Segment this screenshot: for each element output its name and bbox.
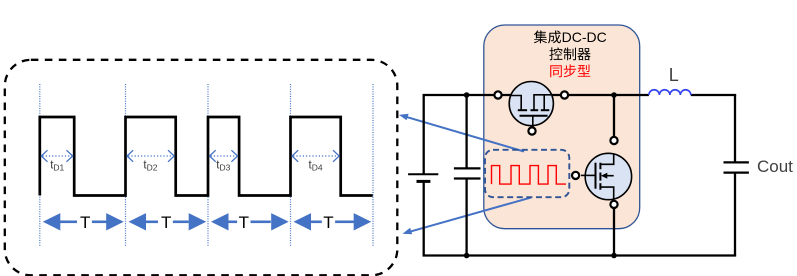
junction dot top Cin xyxy=(464,92,470,98)
svg-text:T: T xyxy=(161,213,171,232)
callout arrow upper xyxy=(399,114,524,152)
MOSFET Q2 low-side (N-channel) xyxy=(572,153,632,199)
svg-text:L: L xyxy=(669,65,679,85)
period dimension arrow T3 xyxy=(211,213,289,230)
MOSFET Q1 high-side (P-channel) xyxy=(509,82,553,135)
junction dot bottom switch-node xyxy=(611,253,617,259)
wire: top rail right of inductor xyxy=(691,94,736,96)
dashed zoom-detail box xyxy=(5,60,398,275)
period boundary line 2 xyxy=(125,84,127,247)
label 集成DC-DC (CJK as paths) xyxy=(534,30,561,43)
label 控制器 xyxy=(549,47,590,60)
junction dot bottom Cin xyxy=(464,253,470,259)
wire: battery branch xyxy=(423,95,425,256)
callout arrow lower xyxy=(403,198,532,235)
period dimension arrow T1 xyxy=(43,213,124,230)
period boundary line 4 xyxy=(290,84,292,247)
capacitor Cin xyxy=(454,168,481,178)
period dimension arrow T2 xyxy=(129,213,207,230)
svg-text:tD1: tD1 xyxy=(50,159,64,172)
period boundary line 3 xyxy=(207,84,209,247)
controller box U1 xyxy=(484,25,640,229)
svg-text:DC-DC: DC-DC xyxy=(562,29,607,45)
terminal: Q1 drain pin xyxy=(494,91,501,98)
terminal: Q1 gate pin xyxy=(528,127,535,134)
PWM signal trace (red) xyxy=(492,166,567,185)
period boundary line 1 xyxy=(39,84,41,247)
capacitor Cout xyxy=(724,162,749,172)
wire: input capacitor branch xyxy=(465,95,467,256)
label 同步型 (red) xyxy=(550,64,590,77)
PWM signal box xyxy=(485,150,569,197)
svg-text:tD2: tD2 xyxy=(143,159,157,172)
wire: bottom rail xyxy=(423,254,737,256)
dimension arrow tD4 xyxy=(292,150,339,162)
dimension arrow tD2 xyxy=(127,150,174,162)
dimension arrow tD1 xyxy=(41,150,72,162)
dimension arrow tD3 xyxy=(210,150,238,162)
svg-text:T: T xyxy=(323,213,333,232)
terminal: Q1 source pin xyxy=(561,91,568,98)
terminal: Q2 source pin xyxy=(610,201,617,208)
period dimension arrow T4 xyxy=(294,213,372,230)
terminal: Q2 drain pin xyxy=(610,137,617,144)
inductor L coil xyxy=(649,90,691,95)
period boundary line 5 xyxy=(372,84,374,247)
wire: switch node branch xyxy=(613,95,615,256)
svg-text:T: T xyxy=(239,213,249,232)
svg-text:tD3: tD3 xyxy=(216,159,230,172)
svg-text:Cout: Cout xyxy=(757,157,793,176)
terminal: Q2 gate pin xyxy=(572,172,579,179)
wire: top rail xyxy=(423,94,649,96)
svg-text:tD4: tD4 xyxy=(309,159,323,172)
PWM waveform trace xyxy=(40,117,373,196)
svg-text:T: T xyxy=(80,213,90,232)
wire: output branch xyxy=(734,95,736,256)
battery Vin xyxy=(408,174,438,181)
Q2 bulk arrow xyxy=(601,173,607,179)
junction dot top switch-node xyxy=(611,92,617,98)
